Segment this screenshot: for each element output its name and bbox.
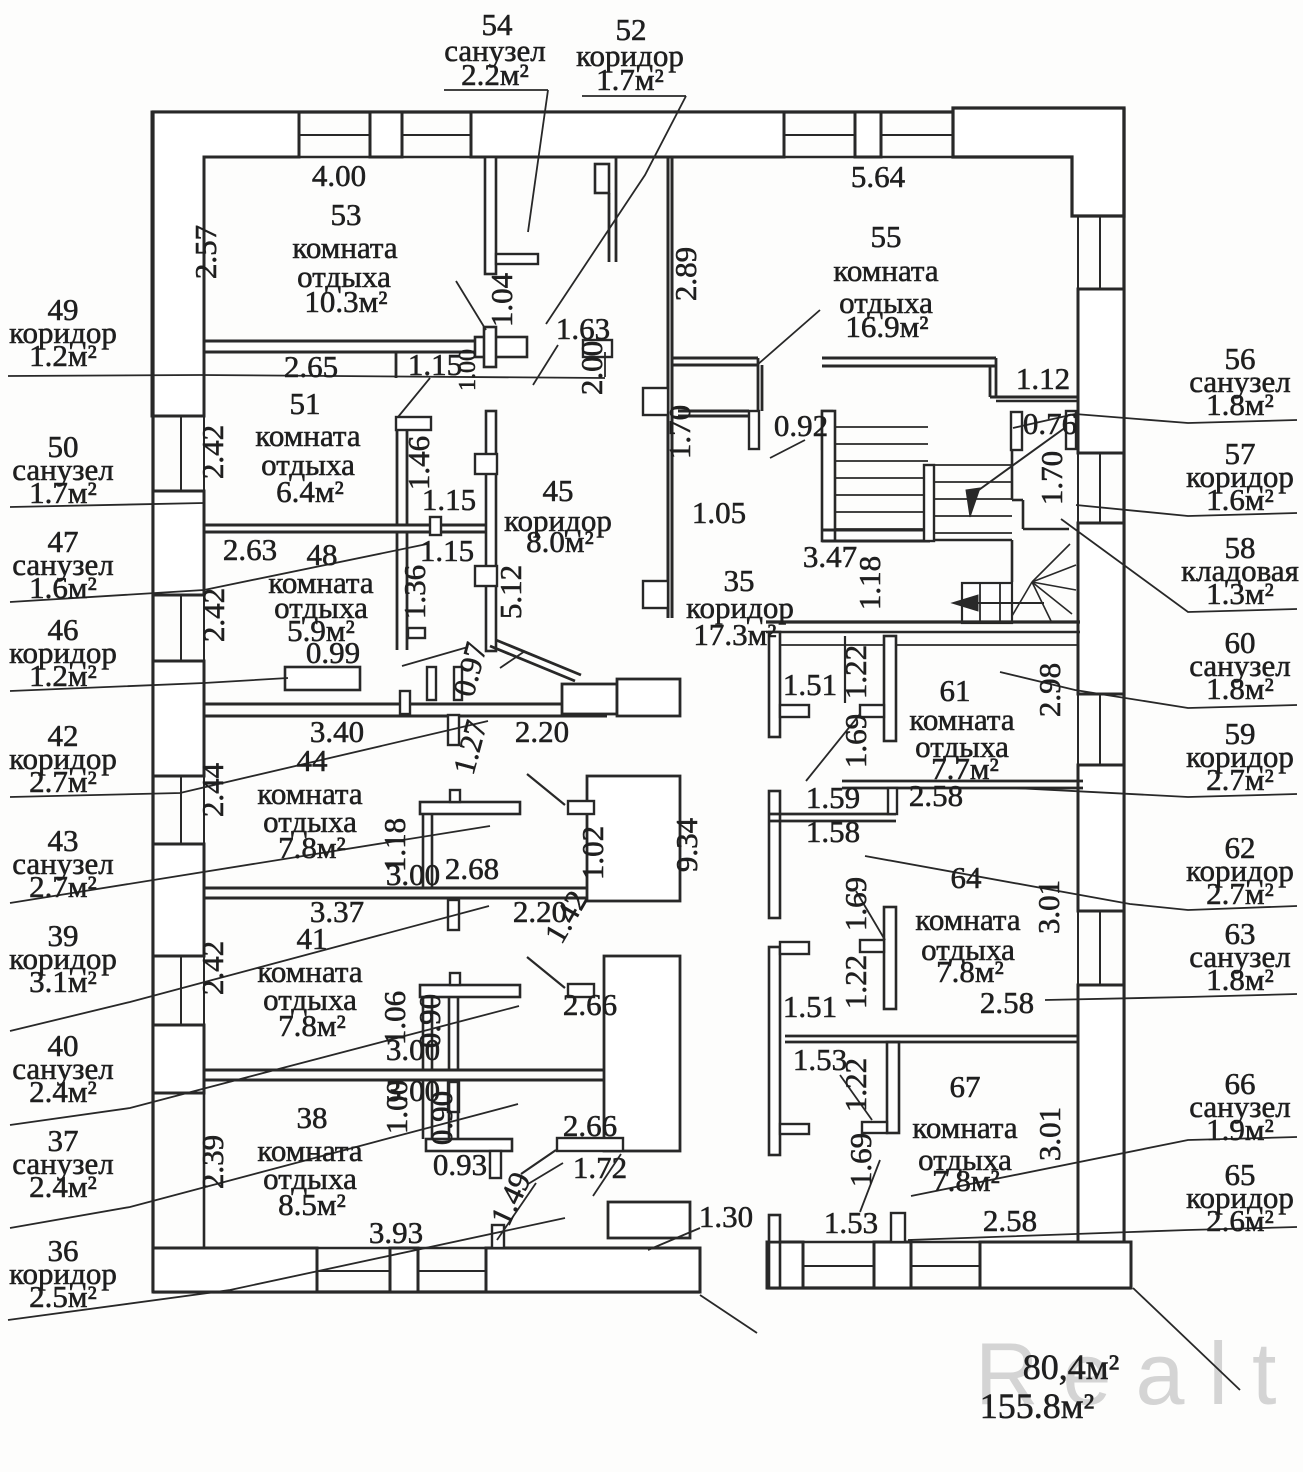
svg-text:1.72: 1.72 [573, 1150, 627, 1185]
svg-text:2.42: 2.42 [195, 941, 230, 995]
svg-text:1.05: 1.05 [692, 495, 746, 530]
svg-text:3.01: 3.01 [1032, 1107, 1067, 1161]
svg-text:2.63: 2.63 [223, 532, 277, 567]
svg-text:1.00: 1.00 [455, 349, 481, 391]
svg-text:1.2м²: 1.2м² [29, 658, 97, 693]
svg-text:2.4м²: 2.4м² [29, 1169, 97, 1204]
svg-text:1.69: 1.69 [843, 1133, 878, 1187]
svg-text:55: 55 [871, 219, 902, 254]
svg-text:16.9м²: 16.9м² [845, 309, 928, 344]
svg-text:2.98: 2.98 [1032, 663, 1067, 717]
svg-text:1.02: 1.02 [575, 826, 610, 880]
svg-text:1.00: 1.00 [379, 1080, 414, 1134]
svg-text:1.51: 1.51 [783, 667, 837, 702]
svg-text:1.9м²: 1.9м² [1206, 1112, 1274, 1147]
svg-text:2.42: 2.42 [195, 425, 230, 479]
svg-text:1.6м²: 1.6м² [29, 570, 97, 605]
svg-text:2.66: 2.66 [563, 1108, 617, 1143]
svg-text:1.3м²: 1.3м² [1206, 576, 1274, 611]
svg-text:6.4м²: 6.4м² [276, 474, 344, 509]
svg-text:1.30: 1.30 [699, 1199, 753, 1234]
svg-text:2.7м²: 2.7м² [1206, 876, 1274, 911]
svg-text:1.8м²: 1.8м² [1206, 387, 1274, 422]
svg-text:1.69: 1.69 [838, 877, 873, 931]
svg-text:3.00: 3.00 [386, 1032, 440, 1067]
svg-text:1.2м²: 1.2м² [29, 338, 97, 373]
svg-text:2.65: 2.65 [284, 349, 338, 384]
svg-text:1.70: 1.70 [662, 405, 697, 459]
svg-text:1.8м²: 1.8м² [1206, 962, 1274, 997]
svg-text:3.01: 3.01 [1031, 880, 1066, 934]
svg-text:80,4м²: 80,4м² [1023, 1347, 1120, 1387]
svg-text:3.1м²: 3.1м² [29, 964, 97, 999]
svg-text:1.18: 1.18 [852, 556, 887, 610]
svg-text:1.15: 1.15 [420, 533, 474, 568]
svg-text:0.92: 0.92 [774, 408, 828, 443]
svg-text:2.7м²: 2.7м² [29, 869, 97, 904]
svg-text:2.44: 2.44 [195, 762, 230, 817]
svg-text:7.8м²: 7.8м² [278, 1008, 346, 1043]
svg-text:2.68: 2.68 [445, 851, 499, 886]
svg-text:53: 53 [331, 197, 362, 232]
svg-text:1.58: 1.58 [806, 814, 860, 849]
svg-text:38: 38 [297, 1100, 328, 1135]
svg-text:1.22: 1.22 [838, 1058, 873, 1112]
svg-text:комната: комната [912, 1110, 1017, 1145]
svg-text:1.15: 1.15 [422, 482, 476, 517]
svg-text:2.58: 2.58 [983, 1203, 1037, 1238]
svg-text:2.7м²: 2.7м² [29, 764, 97, 799]
svg-text:2.89: 2.89 [668, 247, 703, 301]
svg-text:2.39: 2.39 [195, 1135, 230, 1189]
svg-text:17.3м²: 17.3м² [693, 617, 776, 652]
svg-text:0.76: 0.76 [1023, 406, 1077, 441]
svg-text:5.64: 5.64 [851, 159, 906, 194]
svg-text:9.34: 9.34 [669, 817, 704, 872]
svg-text:10.3м²: 10.3м² [304, 284, 387, 319]
svg-text:7.8м²: 7.8м² [932, 1163, 1000, 1198]
svg-text:2.00: 2.00 [574, 341, 609, 395]
svg-text:1.70: 1.70 [1034, 451, 1069, 505]
svg-text:2.42: 2.42 [196, 588, 231, 642]
svg-text:1.53: 1.53 [824, 1205, 878, 1240]
svg-text:41: 41 [297, 921, 328, 956]
svg-text:0.93: 0.93 [433, 1147, 487, 1182]
svg-text:2.5м²: 2.5м² [29, 1279, 97, 1314]
svg-text:комната: комната [833, 253, 938, 288]
svg-text:8.5м²: 8.5м² [278, 1187, 346, 1222]
svg-text:1.04: 1.04 [484, 272, 519, 327]
svg-text:2.58: 2.58 [980, 985, 1034, 1020]
svg-text:1.59: 1.59 [806, 780, 860, 815]
svg-text:1.15: 1.15 [408, 347, 462, 382]
svg-text:0.90: 0.90 [424, 1091, 459, 1145]
svg-text:3.47: 3.47 [803, 539, 857, 574]
svg-text:64: 64 [951, 860, 983, 895]
svg-text:5.12: 5.12 [493, 565, 528, 619]
svg-text:3.93: 3.93 [369, 1215, 423, 1250]
svg-text:1.12: 1.12 [1016, 361, 1070, 396]
svg-text:44: 44 [297, 743, 329, 778]
svg-text:1.36: 1.36 [397, 565, 432, 619]
svg-text:2.4м²: 2.4м² [29, 1074, 97, 1109]
svg-text:1.63: 1.63 [556, 311, 610, 346]
svg-text:1.69: 1.69 [838, 714, 873, 768]
svg-text:2.66: 2.66 [563, 987, 617, 1022]
svg-text:1.22: 1.22 [838, 955, 873, 1009]
svg-text:1.51: 1.51 [783, 989, 837, 1024]
svg-text:1.8м²: 1.8м² [1206, 671, 1274, 706]
svg-text:2.20: 2.20 [515, 714, 569, 749]
svg-text:0.99: 0.99 [306, 635, 360, 670]
svg-text:3.00: 3.00 [386, 857, 440, 892]
svg-text:2.58: 2.58 [909, 778, 963, 813]
svg-text:7.8м²: 7.8м² [278, 830, 346, 865]
svg-text:2.20: 2.20 [513, 894, 567, 929]
svg-text:155.8м²: 155.8м² [980, 1386, 1095, 1426]
svg-text:2.6м²: 2.6м² [1206, 1203, 1274, 1238]
svg-text:67: 67 [950, 1069, 981, 1104]
svg-text:2.7м²: 2.7м² [1206, 762, 1274, 797]
svg-text:1.22: 1.22 [838, 645, 873, 699]
svg-text:1.6м²: 1.6м² [1206, 482, 1274, 517]
svg-text:51: 51 [290, 386, 321, 421]
svg-text:1.7м²: 1.7м² [596, 62, 664, 97]
svg-text:1.7м²: 1.7м² [29, 475, 97, 510]
svg-text:4.00: 4.00 [312, 158, 366, 193]
svg-text:2.2м²: 2.2м² [461, 57, 529, 92]
svg-text:7.8м²: 7.8м² [936, 954, 1004, 989]
svg-text:8.0м²: 8.0м² [526, 524, 594, 559]
svg-text:2.57: 2.57 [188, 225, 223, 279]
